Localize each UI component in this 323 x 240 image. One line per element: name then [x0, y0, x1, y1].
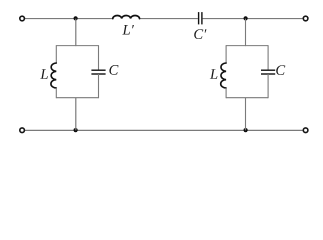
wire right shunt capacitor branch upper	[267, 45, 269, 70]
wire right shunt capacitor branch lower	[267, 74, 269, 98]
terminal bottom-right	[303, 128, 308, 133]
label L (left shunt)	[40, 69, 48, 79]
wire right shunt inductor branch upper	[225, 45, 227, 63]
label C (left shunt)	[109, 65, 118, 75]
wire left shunt bottom bar	[56, 97, 98, 99]
wire right shunt top bar	[226, 45, 268, 47]
wire left shunt stem top	[75, 19, 77, 46]
terminal top-right	[303, 16, 308, 21]
label C (right shunt)	[276, 65, 285, 75]
wire right shunt inductor branch lower	[225, 88, 227, 98]
inductor L (left shunt)	[51, 63, 56, 88]
terminal bottom-left	[20, 128, 25, 133]
inductor L' (series, top rail)	[113, 15, 140, 18]
label C'	[194, 29, 206, 39]
wire left shunt inductor branch upper	[55, 45, 57, 63]
wire right shunt bottom bar	[226, 97, 268, 99]
label L'	[122, 25, 134, 35]
wire left shunt capacitor branch lower	[98, 74, 100, 98]
junction node bottom-left	[74, 128, 78, 132]
wire left shunt stem bottom	[75, 98, 77, 131]
wire top rail middle segment	[140, 18, 198, 20]
wire bottom rail	[25, 129, 303, 131]
wire right shunt stem bottom	[245, 98, 247, 131]
junction node bottom-right	[244, 128, 248, 132]
capacitor C' (series, top rail)	[199, 12, 202, 24]
wire left shunt inductor branch lower	[55, 88, 57, 98]
inductor L (right shunt)	[221, 63, 226, 88]
wire left shunt top bar	[56, 45, 98, 47]
wire top rail right segment	[203, 18, 303, 20]
label L (right shunt)	[210, 69, 218, 79]
junction node top-right	[244, 16, 248, 20]
wire top rail left segment	[25, 18, 113, 20]
wire left shunt capacitor branch upper	[98, 45, 100, 70]
junction node top-left	[74, 16, 78, 20]
wire right shunt stem top	[245, 19, 247, 46]
capacitor C (left shunt)	[91, 70, 105, 74]
terminal top-left	[20, 16, 25, 21]
capacitor C (right shunt)	[261, 70, 275, 74]
